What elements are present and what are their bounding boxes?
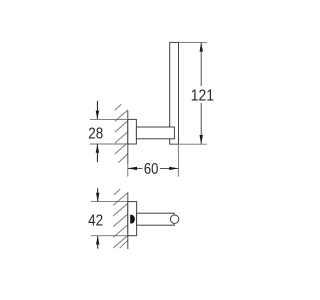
wall line (front view) [127,111,129,164]
extension line left of dim 60 (wall line continuation) [127,163,129,177]
extension line top of dim 28 [90,118,128,120]
arrowhead right of dim 60 [169,167,178,170]
svg-text:121: 121 [191,87,214,104]
svg-text:42: 42 [88,212,103,229]
svg-text:28: 28 [88,125,103,142]
wall hatching (top view) [113,189,128,248]
arrow above of dim 42 [96,188,99,201]
roll holder rod (top view) [137,213,175,225]
vertical bar (front view) [170,42,179,144]
arrowhead left of dim 60 [128,167,137,170]
arrow below of dim 28 [96,144,99,162]
horizontal arm (front view) [136,127,174,139]
extension line top of dim 42 [91,201,128,203]
dimension line 60 [128,167,178,169]
mounting plate (front view) [128,119,137,144]
label 28 [88,125,103,142]
label 60 [144,161,159,178]
wall hatching (front view) [115,104,128,162]
rounded rod end [170,215,179,224]
arrowhead up of dim 121 [200,42,203,51]
arrow below of dim 42 [96,236,99,249]
label 121 [191,87,214,104]
extension line bottom of dim 28 [90,143,128,145]
svg-text:60: 60 [144,161,159,178]
extension line top of dim 121 [179,41,207,43]
wall line (top view) [127,193,129,249]
label 42 [88,212,103,229]
extension line bottom of dim 121 [170,143,207,145]
screw detail on plate [130,215,135,224]
extension line right of dim 60 [177,145,179,177]
arrowhead down of dim 121 [200,135,203,144]
dimension line 121 [200,43,202,144]
arrow above of dim 28 [96,101,99,120]
mounting plate (top view) [128,202,137,236]
extension line bottom of dim 42 [91,235,128,237]
